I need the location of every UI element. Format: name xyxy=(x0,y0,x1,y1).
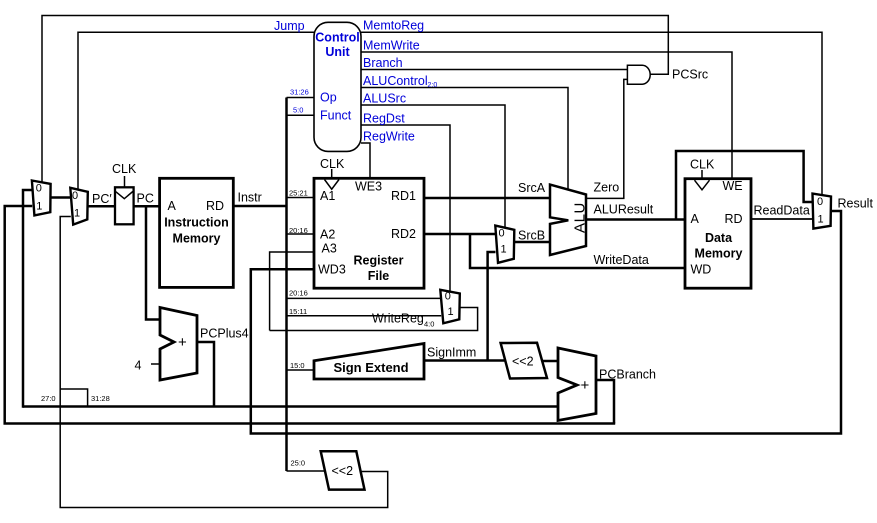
svg-text:4:0: 4:0 xyxy=(424,320,434,329)
svg-text:A: A xyxy=(168,199,177,213)
svg-text:15:11: 15:11 xyxy=(289,307,307,316)
svg-text:File: File xyxy=(368,269,390,283)
svg-text:Sign Extend: Sign Extend xyxy=(333,360,408,375)
svg-text:WriteData: WriteData xyxy=(594,253,649,267)
svg-text:Jump: Jump xyxy=(274,19,305,33)
svg-text:2:0: 2:0 xyxy=(428,82,438,89)
svg-text:Memory: Memory xyxy=(173,232,221,246)
svg-text:Result: Result xyxy=(838,197,874,211)
svg-text:WD3: WD3 xyxy=(318,263,346,277)
svg-text:CLK: CLK xyxy=(320,157,345,171)
svg-text:15:0: 15:0 xyxy=(290,361,305,370)
svg-text:Memory: Memory xyxy=(695,247,743,261)
svg-text:WriteReg: WriteReg xyxy=(372,312,424,326)
svg-text:PCBranch: PCBranch xyxy=(599,368,656,382)
svg-text:1: 1 xyxy=(818,214,824,226)
svg-text:0: 0 xyxy=(817,196,823,208)
svg-text:+: + xyxy=(178,334,187,351)
svg-text:PC: PC xyxy=(137,192,154,206)
svg-text:PC′: PC′ xyxy=(92,192,112,206)
svg-text:25:0: 25:0 xyxy=(291,459,306,468)
svg-text:1: 1 xyxy=(448,306,454,318)
svg-text:31:26: 31:26 xyxy=(290,88,309,97)
svg-text:<<2: <<2 xyxy=(332,464,354,478)
svg-text:ReadData: ReadData xyxy=(754,204,810,218)
svg-text:27:0: 27:0 xyxy=(41,394,56,403)
svg-text:SrcB: SrcB xyxy=(518,229,545,243)
svg-text:A: A xyxy=(691,212,700,226)
svg-text:20:16: 20:16 xyxy=(289,289,308,298)
svg-text:31:28: 31:28 xyxy=(91,394,110,403)
svg-text:ALUSrc: ALUSrc xyxy=(363,92,406,106)
svg-text:PCSrc: PCSrc xyxy=(672,68,708,82)
svg-text:WE: WE xyxy=(723,179,743,193)
svg-text:Control: Control xyxy=(315,31,359,45)
svg-text:Instruction: Instruction xyxy=(164,216,229,230)
svg-text:25:21: 25:21 xyxy=(289,189,308,198)
svg-text:SignImm: SignImm xyxy=(427,346,476,360)
svg-text:Funct: Funct xyxy=(320,109,352,123)
svg-text:ALU: ALU xyxy=(572,202,589,233)
svg-text:A3: A3 xyxy=(322,242,337,256)
svg-text:0: 0 xyxy=(445,291,451,303)
svg-text:1: 1 xyxy=(36,201,42,213)
svg-text:5:0: 5:0 xyxy=(293,106,303,115)
svg-text:+: + xyxy=(581,377,590,394)
svg-text:RD2: RD2 xyxy=(391,227,416,241)
svg-text:0: 0 xyxy=(36,183,42,195)
svg-text:Unit: Unit xyxy=(325,45,350,59)
svg-text:A2: A2 xyxy=(320,228,335,242)
svg-text:ALUResult: ALUResult xyxy=(594,203,654,217)
svg-text:20:16: 20:16 xyxy=(289,226,308,235)
svg-text:Op: Op xyxy=(320,91,337,105)
svg-text:Register: Register xyxy=(353,254,403,268)
svg-text:A1: A1 xyxy=(320,189,335,203)
svg-text:Branch: Branch xyxy=(363,56,403,70)
svg-text:WD: WD xyxy=(691,263,712,277)
svg-text:0: 0 xyxy=(72,190,78,202)
svg-text:MemWrite: MemWrite xyxy=(363,39,420,53)
svg-text:1: 1 xyxy=(501,244,507,256)
svg-text:1: 1 xyxy=(74,208,80,220)
svg-text:CLK: CLK xyxy=(112,162,137,176)
svg-text:Zero: Zero xyxy=(594,181,620,195)
svg-text:RegWrite: RegWrite xyxy=(363,130,415,144)
svg-text:CLK: CLK xyxy=(690,158,715,172)
svg-text:RegDst: RegDst xyxy=(363,112,405,126)
svg-text:Data: Data xyxy=(705,231,733,245)
svg-text:Instr: Instr xyxy=(238,191,262,205)
svg-text:RD: RD xyxy=(725,212,743,226)
svg-text:MemtoReg: MemtoReg xyxy=(363,19,424,33)
svg-text:0: 0 xyxy=(499,228,505,240)
svg-text:RD1: RD1 xyxy=(391,189,416,203)
svg-text:4: 4 xyxy=(135,359,142,373)
svg-text:RD: RD xyxy=(206,199,224,213)
svg-text:ALUControl: ALUControl xyxy=(363,74,428,88)
svg-text:PCPlus4: PCPlus4 xyxy=(200,327,249,341)
svg-text:<<2: <<2 xyxy=(512,355,534,369)
svg-text:SrcA: SrcA xyxy=(518,181,546,195)
svg-text:WE3: WE3 xyxy=(355,180,382,194)
